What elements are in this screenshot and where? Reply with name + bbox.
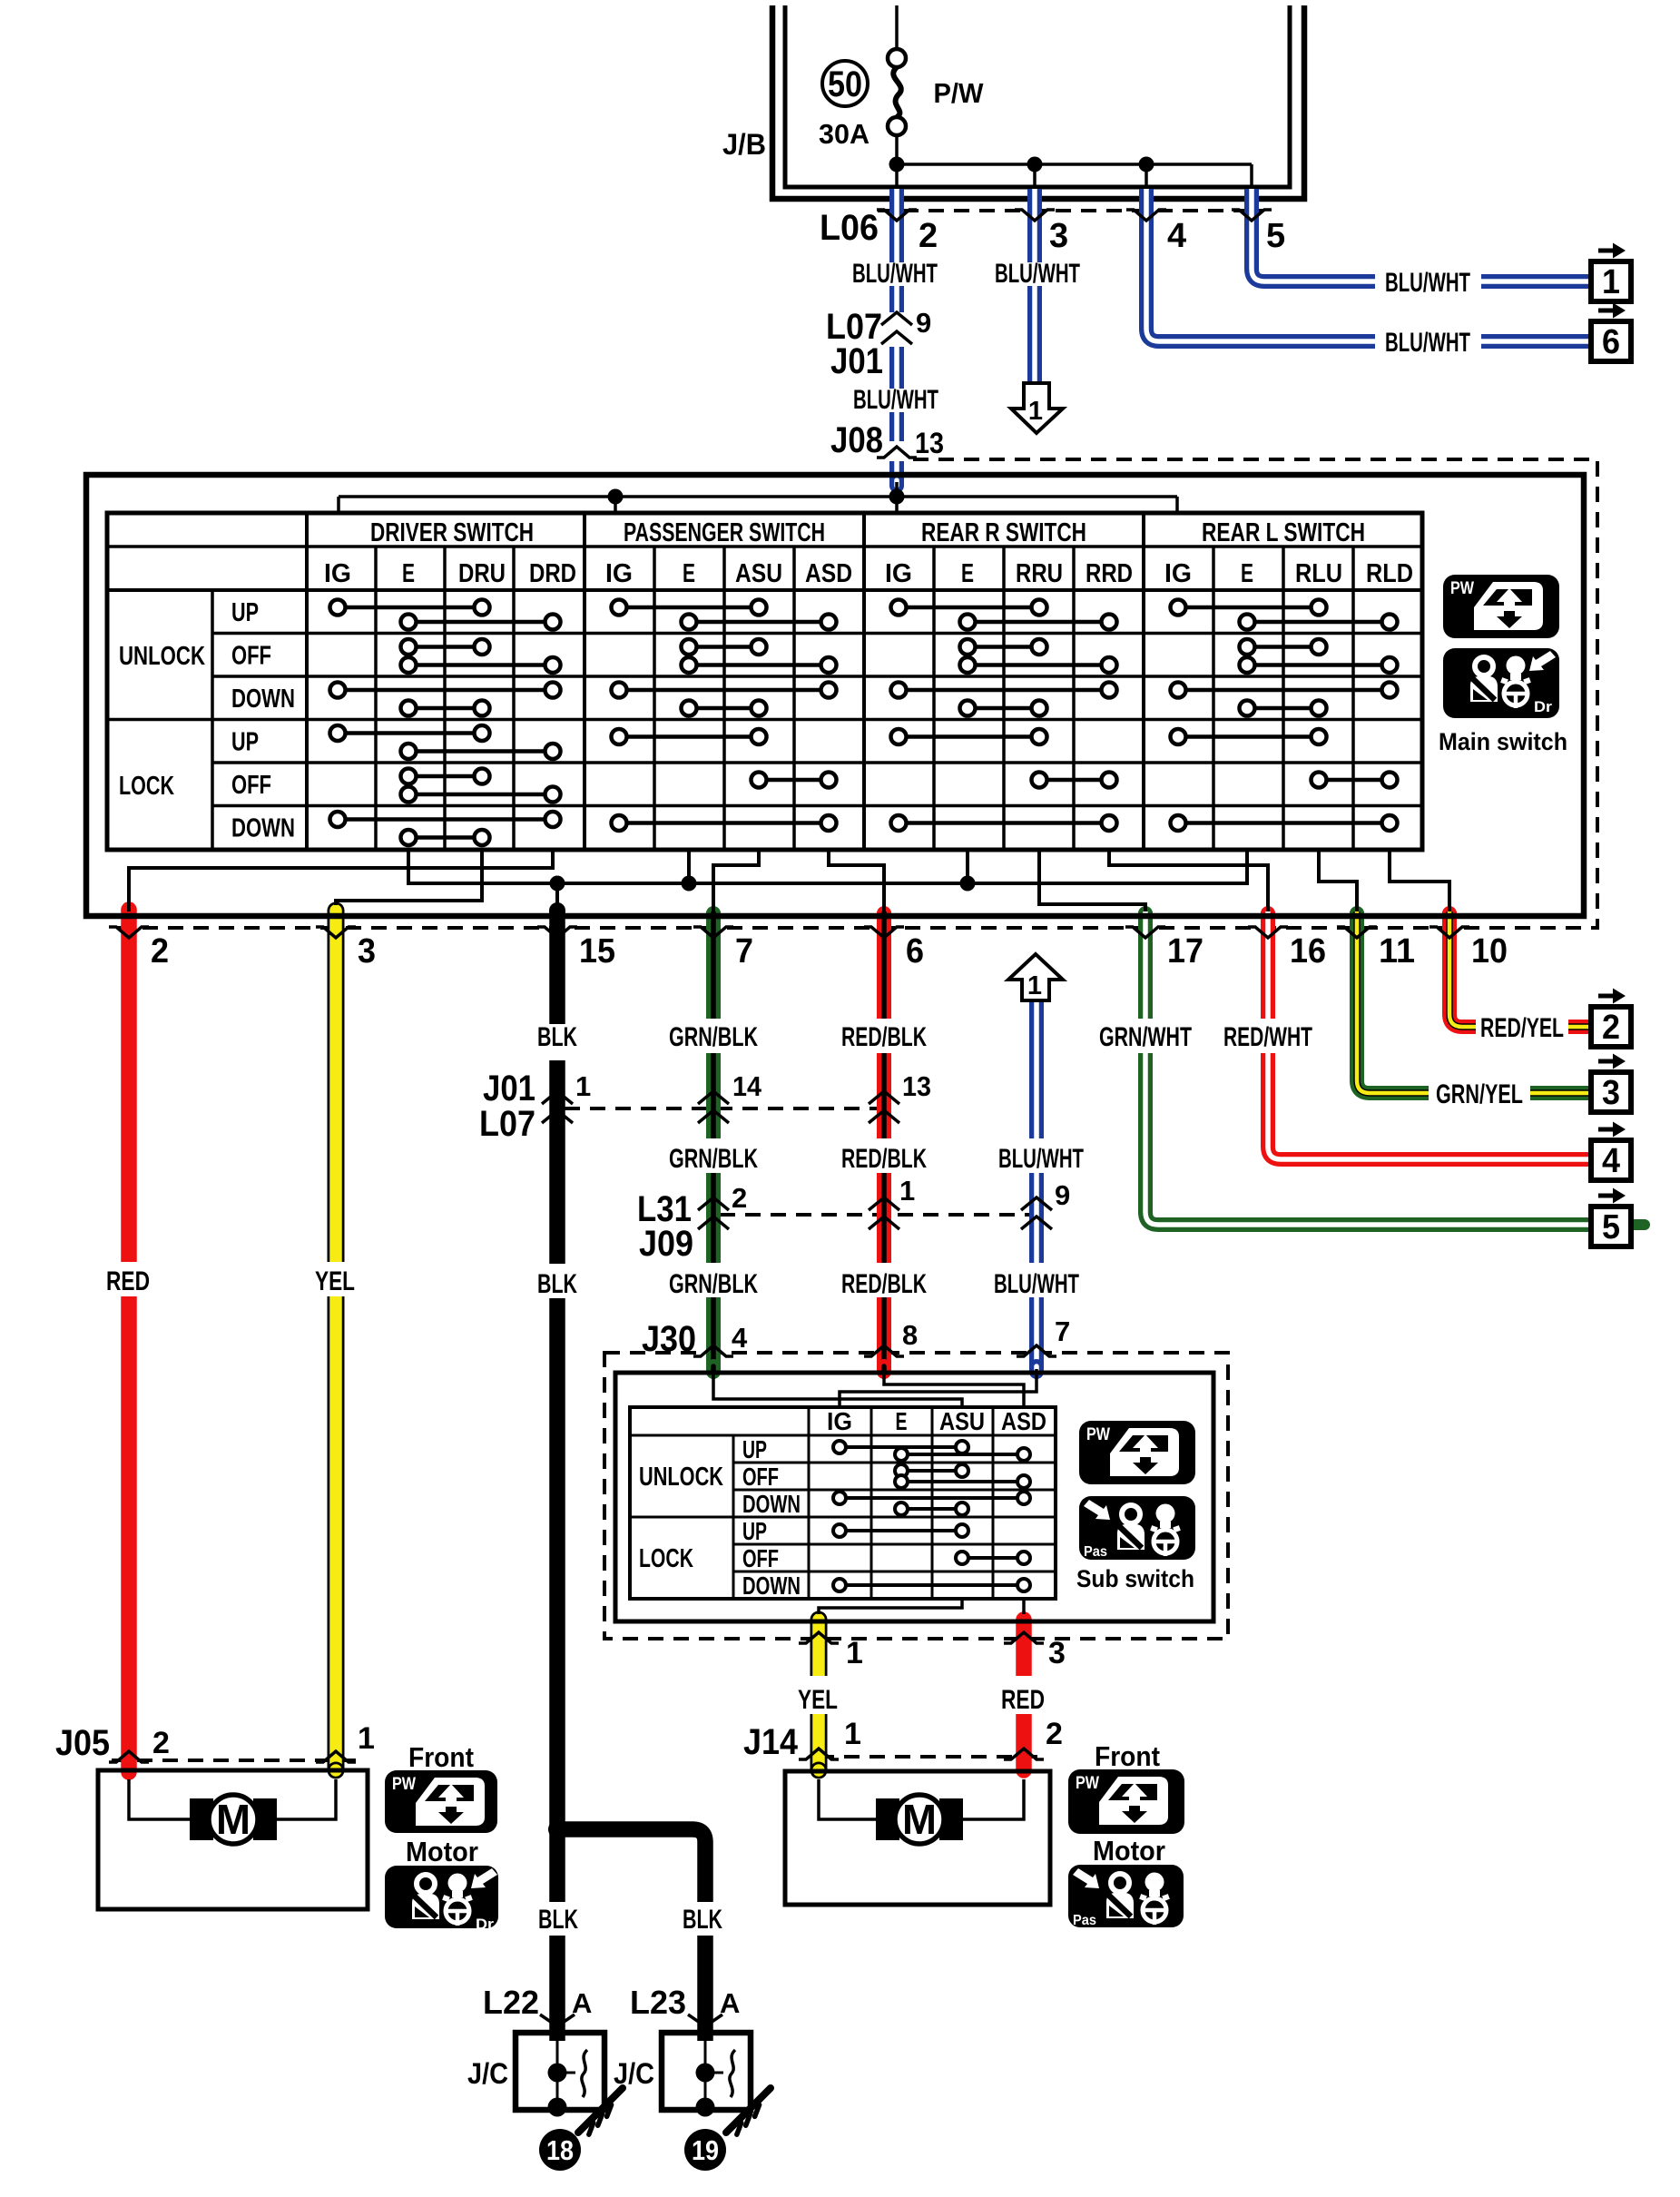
svg-text:J09: J09 [639,1224,693,1264]
main switch driver icon [1443,648,1559,718]
wire RED/BLK pin6 to sub switch [877,911,891,1372]
svg-text:UP: UP [231,598,259,627]
svg-text:Dr: Dr [1534,698,1552,715]
svg-text:2: 2 [151,932,169,970]
svg-text:L23: L23 [630,1984,686,2021]
svg-text:7: 7 [1055,1315,1070,1347]
wire BLU/WHT L06 pin2 to J08 [889,189,904,486]
off-page connector box 6 [1591,303,1631,362]
svg-text:6: 6 [906,932,924,970]
sub switch contacts LOCK UP [833,1524,968,1537]
svg-text:Front: Front [1095,1740,1160,1772]
svg-text:2: 2 [1602,1009,1620,1047]
connector L06 dashed line [878,209,1263,212]
svg-text:A: A [572,1987,592,2019]
svg-text:GRN/BLK: GRN/BLK [669,1022,758,1052]
svg-text:DOWN: DOWN [231,814,295,843]
driver motor PW icon [385,1770,497,1833]
wire passenger ASU to pin 7 [713,850,759,911]
svg-text:M: M [216,1796,251,1843]
main switch connector pin 15 [537,927,615,970]
off-page connector 1 up arrow [1008,954,1063,1000]
junction node BLK split [548,1820,566,1838]
svg-text:L22: L22 [483,1984,539,2021]
driver switch contacts UNLOCK DOWN [330,683,561,716]
driver switch contacts UNLOCK OFF [401,639,561,673]
sub switch contacts UNLOCK OFF [895,1464,1030,1488]
svg-text:1: 1 [844,1717,861,1751]
rearL switch contacts UNLOCK OFF [1240,639,1398,673]
passenger switch contacts UNLOCK OFF [682,639,837,673]
passenger front motor box [785,1771,1050,1905]
main switch solid box [86,475,1584,916]
svg-text:RLU: RLU [1295,559,1342,588]
label Front (driver) [408,1741,474,1773]
svg-text:3: 3 [358,932,376,970]
column headers rearL switch [1164,559,1413,588]
svg-text:BLU/WHT: BLU/WHT [852,259,938,289]
svg-text:RED/BLK: RED/BLK [841,1144,927,1174]
svg-text:19: 19 [692,2134,719,2166]
label RED sub wire [1001,1685,1045,1715]
passenger switch contacts UNLOCK UP [612,600,837,630]
connector J30 pin 8 (RED/BLK) [864,1319,918,1356]
svg-text:DOWN: DOWN [231,685,295,714]
sub switch column headers IG E ASU ASD [827,1407,1046,1435]
svg-text:ASU: ASU [939,1407,985,1435]
svg-text:BLU/WHT: BLU/WHT [995,259,1080,289]
connector J30 pin 7 (BLU/WHT) [1017,1315,1070,1356]
main switch connector pin 16 [1248,927,1326,970]
label J/C right [614,2057,654,2090]
rearL switch contacts LOCK UP [1171,729,1327,744]
label BLU/WHT below J01 [853,385,938,415]
svg-text:IG: IG [324,559,351,588]
junction node passenger E [682,876,697,892]
wire RED sub pin3 to J14 [1016,1611,1032,1778]
wire driver DRU to pin 3 [336,850,482,905]
connector J05 dashed line [112,1759,356,1762]
label Main switch [1439,728,1567,755]
connector L23 pin A [630,1984,740,2026]
label GRN/BLK mid [669,1144,758,1174]
connector J14 pin 1 (YEL) [799,1717,861,1759]
svg-text:IG: IG [885,559,912,588]
sub switch dashed harness box [604,1353,1228,1639]
svg-text:1: 1 [575,1070,591,1102]
connector L06 pins [877,210,1272,221]
junction node wire 4 [1139,157,1154,172]
svg-text:L06: L06 [820,208,879,248]
svg-text:J/C: J/C [614,2057,654,2090]
label BLU/WHT lower [994,1269,1079,1299]
svg-text:PW: PW [1086,1425,1110,1444]
svg-text:YEL: YEL [315,1266,355,1296]
junction connector J/C right box [662,2033,751,2117]
connector J01/L07 pin 13 (RED/BLK) [869,1070,931,1123]
label GRN/WHT wire17 [1099,1022,1192,1052]
wire BLU/WHT L06 pin4 to box 6 [1146,189,1591,341]
wire RED/WHT pin16 to box 4 [1268,911,1591,1159]
svg-text:1: 1 [1027,971,1042,1000]
rearL switch contacts UNLOCK UP [1171,600,1398,630]
connector J14 pin 2 (RED) [1004,1717,1063,1759]
svg-text:DRU: DRU [458,559,506,588]
label RED/WHT wire16 [1223,1022,1312,1052]
wire RED/YEL pin10 to box 2 [1449,911,1591,1027]
label BLK ground wire right [683,1905,722,1935]
wire YEL pin3 to J05 [328,902,345,1779]
rearL switch contacts LOCK DOWN [1171,815,1398,831]
connector L31/J09 pin 1 (RED/BLK) [869,1175,915,1229]
label DRIVER SWITCH [370,518,534,547]
junction node passenger IG [608,489,624,505]
svg-text:OFF: OFF [231,771,271,800]
main switch connector pin 10 [1429,927,1508,970]
main switch PW icon [1443,575,1559,638]
driver switch contacts UNLOCK UP [330,600,561,630]
connector J01/L07 dashed line [565,1107,879,1110]
svg-text:J08: J08 [830,420,883,460]
svg-text:E: E [961,559,974,588]
sub switch contacts LOCK DOWN [833,1579,1030,1591]
rearR switch contacts LOCK DOWN [891,815,1117,831]
off-page connector box 5 [1591,1188,1631,1247]
svg-text:BLU/WHT: BLU/WHT [853,385,938,415]
svg-text:E: E [683,559,695,588]
svg-text:IG: IG [827,1407,852,1435]
connector L22 pin A [483,1984,592,2026]
svg-text:GRN/YEL: GRN/YEL [1436,1079,1523,1109]
wire BLK pin15 to ground junction [549,902,565,1829]
svg-text:UP: UP [231,728,259,757]
svg-text:DRIVER SWITCH: DRIVER SWITCH [370,518,534,547]
off-page connector box 2 [1591,989,1631,1048]
fuse 50 30A P/W [819,49,984,164]
driver motor wiring [129,1779,336,1819]
svg-text:REAR L SWITCH: REAR L SWITCH [1202,518,1365,547]
column headers driver switch [324,559,576,588]
wire YEL sub pin1 to J14 [811,1611,828,1779]
svg-text:2: 2 [919,217,938,255]
label YEL sub wire [798,1685,838,1715]
svg-text:11: 11 [1379,932,1415,970]
wire rear L RLD to pin 10 [1390,850,1449,911]
connector J05 pin 1 (YEL) [316,1721,375,1762]
svg-text:13: 13 [915,427,944,459]
label REAR R SWITCH [921,518,1086,547]
svg-text:1: 1 [1028,397,1043,426]
svg-text:7: 7 [735,932,753,970]
svg-text:16: 16 [1290,932,1326,970]
rearL switch contacts UNLOCK DOWN [1171,683,1398,716]
svg-text:GRN/BLK: GRN/BLK [669,1144,758,1174]
svg-text:YEL: YEL [798,1685,838,1715]
junction node wire 3 [1027,157,1043,172]
svg-text:1: 1 [846,1636,863,1670]
svg-text:OFF: OFF [231,642,271,671]
wire BLU/WHT to IG inside sub [840,1369,1036,1407]
main switch connector pin 2 [109,927,169,970]
svg-text:2: 2 [1046,1717,1063,1751]
svg-text:PW: PW [1450,579,1474,598]
label J/C left [467,2057,508,2090]
svg-text:DOWN: DOWN [742,1490,801,1518]
connector J30 pin 4 (GRN/BLK) [693,1322,748,1356]
svg-text:BLU/WHT: BLU/WHT [1385,328,1470,358]
wire passenger ASD to pin 6 [829,850,884,911]
connector J01/L07 pin 14 (GRN/BLK) [698,1070,762,1123]
wire BLU/WHT off-page 1 to sub switch [1029,1000,1044,1372]
svg-text:E: E [402,559,415,588]
svg-text:J01: J01 [483,1069,535,1108]
label BLK ground wire left [538,1905,578,1935]
passenger switch contacts LOCK DOWN [612,815,837,831]
connector J08 pin 13 [830,420,944,460]
svg-text:Motor: Motor [1093,1835,1165,1867]
svg-text:2: 2 [732,1182,747,1214]
svg-text:1: 1 [899,1175,915,1207]
wire BLK to L22 [549,1829,565,2041]
passenger motor PW icon [1068,1769,1184,1834]
label GRN/BLK wire7 [669,1022,758,1052]
svg-text:3: 3 [1602,1074,1620,1112]
sub connector pin 1 (YEL) [799,1632,863,1670]
IG feed bus inside main switch [339,482,1177,513]
svg-text:J/B: J/B [722,128,766,161]
connector J01/L07 labels [479,1069,535,1144]
sub switch table grid [630,1407,1056,1599]
svg-text:ASD: ASD [1001,1407,1046,1435]
ground bus E columns [408,850,1247,911]
pin 5 of L06 [1266,217,1285,255]
ground reference 18 [539,2129,581,2171]
svg-text:9: 9 [916,307,931,339]
label LOCK [119,772,174,801]
svg-text:RED: RED [106,1266,150,1296]
connector L31/J09 pin 9 (BLU/WHT) [1021,1179,1070,1229]
off-page connector box 3 [1591,1054,1631,1113]
svg-text:GRN/WHT: GRN/WHT [1099,1022,1192,1052]
svg-text:18: 18 [546,2134,574,2166]
label GRN/YEL wire11 [1436,1079,1523,1109]
motor M driver [190,1795,277,1844]
svg-text:RED: RED [1001,1685,1045,1715]
svg-text:J30: J30 [642,1319,696,1359]
sub switch contacts UNLOCK DOWN [833,1492,1030,1515]
off-page connector 1 down arrow [1011,383,1063,433]
svg-text:RED/WHT: RED/WHT [1223,1022,1312,1052]
label RED/BLK lower [841,1269,927,1299]
driver switch contacts LOCK UP [330,725,561,759]
svg-text:5: 5 [1266,217,1285,255]
svg-text:RRU: RRU [1016,559,1063,588]
main switch connector pin 7 [693,927,753,970]
svg-text:BLK: BLK [537,1022,577,1052]
svg-text:BLK: BLK [538,1905,578,1935]
svg-text:BLU/WHT: BLU/WHT [1385,268,1470,298]
svg-text:BLU/WHT: BLU/WHT [994,1269,1079,1299]
connector J14 label [743,1722,799,1762]
label L06 [820,208,879,248]
svg-text:ASU: ASU [735,559,782,588]
svg-text:BLU/WHT: BLU/WHT [998,1144,1084,1174]
svg-text:OFF: OFF [742,1544,779,1572]
svg-text:DOWN: DOWN [742,1571,801,1600]
svg-text:10: 10 [1471,932,1508,970]
sub connector pin 3 (RED) [1004,1632,1066,1670]
svg-text:UP: UP [742,1435,767,1463]
wire BLU/WHT L06 pin3 to off-page 1 [1027,189,1042,383]
passenger motor wiring [819,1779,1024,1819]
wire GRN/BLK to ASU inside sub [713,1369,962,1407]
power bus inside J/B [897,164,1252,191]
main switch table grid [107,513,1422,850]
sub switch label LOCK [639,1544,693,1573]
svg-text:15: 15 [579,932,615,970]
wire driver DRD to pin 2 [129,850,553,911]
junction block J/B outline [772,5,1304,199]
passenger switch contacts LOCK OFF [752,773,837,788]
junction node E bus pin15 [550,876,565,892]
svg-text:L07: L07 [479,1104,535,1144]
wire from fuse top [895,5,899,49]
junction connector J/C left box [516,2033,604,2117]
wire sub ASD to RED pin3 [1022,1599,1026,1614]
driver switch contacts LOCK OFF [401,769,561,803]
wire GRN/BLK pin7 to sub switch [706,911,721,1372]
svg-text:Pas: Pas [1084,1544,1107,1560]
rearR switch contacts LOCK OFF [1032,773,1117,788]
label RED/BLK mid [841,1144,927,1174]
svg-text:Sub switch: Sub switch [1076,1565,1194,1592]
wire RED pin2 to J05 [121,901,137,1780]
svg-text:4: 4 [732,1322,748,1354]
svg-text:GRN/BLK: GRN/BLK [669,1269,758,1299]
svg-text:BLK: BLK [537,1269,577,1299]
svg-text:3: 3 [1048,1636,1066,1670]
wire rear R RRD to pin 16 [1109,850,1268,911]
pin 4 of L06 [1167,217,1186,255]
driver front motor box [98,1770,368,1909]
passenger switch contacts LOCK UP [612,729,767,744]
svg-text:PASSENGER SWITCH: PASSENGER SWITCH [624,518,825,547]
svg-text:Pas: Pas [1073,1913,1096,1928]
svg-text:RED/BLK: RED/BLK [841,1269,927,1299]
main switch connector pin 3 [316,927,376,970]
label Front (passenger) [1095,1740,1160,1772]
ground reference 19 [684,2129,726,2171]
svg-text:LOCK: LOCK [119,772,174,801]
label RED/BLK wire6 [841,1022,927,1052]
sub switch contacts UNLOCK UP [833,1441,1030,1461]
sub switch PW icon [1079,1421,1195,1484]
wire BLU/WHT L06 pin5 to box 1 [1252,189,1591,281]
label BLU/WHT to box1 [1385,268,1470,298]
off-page connector box 1 [1591,243,1631,302]
svg-text:ASD: ASD [805,559,852,588]
svg-text:RED/YEL: RED/YEL [1480,1013,1564,1043]
rearR switch contacts LOCK UP [891,729,1047,744]
sub switch contacts LOCK OFF [956,1552,1030,1564]
svg-text:RLD: RLD [1366,559,1413,588]
sub switch row labels [742,1435,801,1600]
connector L31/J09 labels [637,1189,693,1264]
svg-text:E: E [896,1407,908,1435]
wire GRN/WHT pin17 to box 5 [1145,911,1645,1225]
connector J14 dashed line [819,1755,1044,1759]
label BLU/WHT wire3 [995,259,1080,289]
driver motor Dr icon [385,1866,498,1933]
label BLK wire15 [537,1022,577,1052]
main switch connector pin 6 [864,927,924,970]
rearR switch contacts UNLOCK DOWN [891,683,1117,716]
passenger motor Pas icon [1068,1865,1184,1928]
driver switch contacts LOCK DOWN [330,812,561,845]
svg-text:J01: J01 [830,341,883,381]
label GRN/BLK lower [669,1269,758,1299]
svg-text:OFF: OFF [742,1463,779,1491]
row labels UP OFF DOWN [231,598,295,843]
svg-text:4: 4 [1167,217,1186,255]
svg-text:30A: 30A [819,118,869,150]
connector J05 label [55,1723,110,1763]
label RED wire2 [106,1266,150,1296]
svg-text:17: 17 [1167,932,1204,970]
svg-text:PW: PW [392,1775,416,1794]
svg-text:3: 3 [1049,217,1068,255]
connector J01/L07 pin 1 (BLK) [542,1070,591,1123]
svg-text:9: 9 [1055,1179,1070,1211]
passenger switch contacts UNLOCK DOWN [612,683,837,716]
connector J30 label [642,1319,696,1359]
svg-text:4: 4 [1602,1142,1620,1180]
svg-text:RED/BLK: RED/BLK [841,1022,927,1052]
svg-text:PW: PW [1076,1774,1099,1793]
label BLK mid [537,1269,577,1299]
junction node rear R E [960,876,976,892]
svg-text:Motor: Motor [406,1836,478,1867]
ground symbol 19 [726,2088,771,2134]
label YEL wire3 [315,1266,355,1296]
main switch connector pin 17 [1125,927,1204,970]
wire sub ASU to YEL pin1 [819,1599,962,1614]
label PASSENGER SWITCH [624,518,825,547]
pin 3 of L06 [1049,217,1068,255]
connector J05 pin 2 (RED) [109,1726,170,1762]
svg-text:M: M [902,1796,937,1843]
svg-text:P/W: P/W [934,77,985,109]
svg-text:J14: J14 [743,1722,799,1762]
svg-text:A: A [720,1987,740,2019]
wire RED/BLK to ASD inside sub [884,1369,1024,1407]
column headers rearR switch [885,559,1133,588]
svg-text:E: E [1241,559,1253,588]
svg-text:BLK: BLK [683,1905,722,1935]
connector L07/J01 pin 9 [826,307,931,381]
label Motor (passenger) [1093,1835,1165,1867]
svg-text:UP: UP [742,1517,767,1545]
svg-text:DRD: DRD [529,559,576,588]
column headers passenger switch [605,559,852,588]
svg-text:UNLOCK: UNLOCK [119,642,205,671]
svg-text:J/C: J/C [467,2057,508,2090]
label BLU/WHT wire2 [852,259,938,289]
svg-text:REAR R SWITCH: REAR R SWITCH [921,518,1086,547]
rearR switch contacts UNLOCK UP [891,600,1117,630]
svg-text:UNLOCK: UNLOCK [639,1463,723,1492]
label RED/YEL wire10 [1480,1013,1564,1043]
